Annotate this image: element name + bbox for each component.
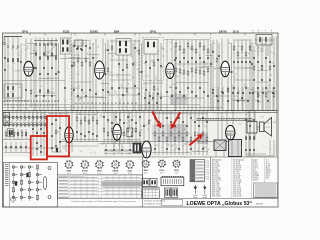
voltage measurement table xyxy=(58,175,143,198)
mixer stage components xyxy=(73,40,91,112)
svg-text:8: 8 xyxy=(151,120,152,122)
svg-text:L10 Kor.: L10 Kor. xyxy=(252,178,259,181)
svg-text:12: 12 xyxy=(133,116,135,118)
svg-text:Rad: Rad xyxy=(266,177,269,179)
svg-text:1k: 1k xyxy=(162,141,164,143)
svg-text:5k: 5k xyxy=(152,99,154,101)
svg-text:Schaltbild Nr. 10 452: Schaltbild Nr. 10 452 xyxy=(144,203,161,206)
svg-text:150: 150 xyxy=(269,75,272,77)
svg-text:Tr 70: Tr 70 xyxy=(205,172,209,174)
svg-text:40: 40 xyxy=(254,133,256,135)
svg-text:LOEWE OPTA „Globus 53“: LOEWE OPTA „Globus 53“ xyxy=(187,201,253,207)
output stage components xyxy=(233,40,251,112)
mains entry box xyxy=(256,35,272,57)
svg-text:EF41: EF41 xyxy=(67,170,72,173)
svg-text:3k: 3k xyxy=(131,56,133,58)
paper background xyxy=(0,0,280,210)
svg-text:EF41: EF41 xyxy=(22,30,29,33)
svg-text:70: 70 xyxy=(266,127,268,129)
bottom strip divider 1 xyxy=(142,157,144,207)
svg-text:0,5: 0,5 xyxy=(170,49,172,51)
svg-text:40: 40 xyxy=(101,116,103,118)
svg-text:25: 25 xyxy=(182,146,184,148)
svg-text:6: 6 xyxy=(21,52,22,54)
loudspeaker xyxy=(260,118,272,137)
legend box frame xyxy=(4,163,58,208)
svg-text:ECH81: ECH81 xyxy=(90,30,99,33)
svg-text:0,5: 0,5 xyxy=(175,93,177,95)
AF coupling xyxy=(212,40,218,111)
rectifier socket views xyxy=(141,159,180,174)
svg-text:12: 12 xyxy=(112,56,114,58)
svg-text:2n: 2n xyxy=(144,62,146,64)
svg-text:0,5: 0,5 xyxy=(254,100,256,102)
speaker field wiring xyxy=(246,140,274,156)
tube V4 EL41 output xyxy=(221,39,230,111)
svg-text:0,5: 0,5 xyxy=(110,72,112,74)
title rule xyxy=(143,198,279,200)
svg-text:5n: 5n xyxy=(79,113,81,115)
detector and AF network xyxy=(175,40,209,111)
svg-text:2n: 2n xyxy=(135,65,137,67)
svg-text:2n: 2n xyxy=(201,62,203,64)
svg-text:8: 8 xyxy=(138,71,139,73)
svg-text:EF41: EF41 xyxy=(97,170,102,173)
voltage selector blocks xyxy=(165,188,178,197)
svg-text:0,1: 0,1 xyxy=(96,92,98,94)
svg-text:12: 12 xyxy=(157,51,159,53)
lower interconnect wiring xyxy=(3,113,276,155)
phono jack box xyxy=(4,113,10,126)
svg-text:5k: 5k xyxy=(257,129,259,131)
ferrite antenna frame xyxy=(4,84,22,98)
chassis bus return wire xyxy=(3,112,279,114)
svg-text:10k: 10k xyxy=(175,148,178,150)
AVC divider components xyxy=(76,110,98,142)
tube V2 ECH81 xyxy=(95,39,105,111)
svg-text:0,5: 0,5 xyxy=(117,152,119,154)
svg-text:150: 150 xyxy=(70,94,73,96)
svg-text:0,3: 0,3 xyxy=(187,142,189,144)
auxiliary wiring stacks xyxy=(20,43,253,111)
svg-text:25: 25 xyxy=(264,43,266,45)
dial lamp and scale parts xyxy=(3,129,30,140)
svg-text:70: 70 xyxy=(109,93,111,95)
svg-text:70: 70 xyxy=(246,114,248,116)
transformer data column xyxy=(205,160,209,180)
left lower tie xyxy=(3,147,59,149)
svg-text:3k: 3k xyxy=(199,55,201,57)
svg-text:Tr 70: Tr 70 xyxy=(205,170,209,172)
svg-text:0,3: 0,3 xyxy=(49,91,51,93)
speaker connector strip xyxy=(161,176,184,186)
svg-text:150: 150 xyxy=(274,91,277,93)
svg-text:5n: 5n xyxy=(98,144,100,146)
tube socket bottom views xyxy=(64,160,134,175)
svg-text:0,2: 0,2 xyxy=(211,50,213,52)
component value speckle xyxy=(5,42,276,155)
svg-text:0,5: 0,5 xyxy=(135,47,137,49)
svg-text:0,5: 0,5 xyxy=(172,150,174,152)
highlight box left of magic eye xyxy=(152,125,166,141)
filter choke xyxy=(229,140,242,157)
svg-text:50: 50 xyxy=(232,86,234,88)
svg-text:0,5: 0,5 xyxy=(23,120,25,122)
border tick marks xyxy=(30,33,245,35)
svg-text:EL41: EL41 xyxy=(128,170,133,173)
svg-text:Geändert: 12.3.53 Blatt 2: Geändert: 12.3.53 Blatt 2 xyxy=(144,200,165,203)
tone control network xyxy=(253,37,275,111)
band coil bank xyxy=(34,38,58,112)
svg-text:25: 25 xyxy=(78,100,80,102)
svg-text:0,3: 0,3 xyxy=(132,77,134,79)
svg-text:70: 70 xyxy=(18,55,20,57)
switch wafer contact row mid xyxy=(76,102,136,104)
svg-text:EC92: EC92 xyxy=(63,30,70,33)
svg-text:10k: 10k xyxy=(155,78,158,80)
svg-text:3k: 3k xyxy=(23,114,25,116)
oscillator padder caps xyxy=(51,112,62,152)
svg-text:1k: 1k xyxy=(78,86,80,88)
svg-text:12: 12 xyxy=(107,122,109,124)
svg-text:EC92: EC92 xyxy=(160,170,165,172)
bottom strip divider 2 xyxy=(210,157,212,199)
svg-text:0,3: 0,3 xyxy=(13,63,15,65)
svg-text:10k: 10k xyxy=(228,43,231,45)
svg-text:EF41: EF41 xyxy=(150,30,157,33)
switch wiring xyxy=(32,112,45,156)
svg-text:EL41: EL41 xyxy=(233,30,240,33)
red arrow annotation 3 xyxy=(189,134,203,145)
svg-text:5k: 5k xyxy=(197,151,199,153)
heater pair wires xyxy=(104,151,140,154)
svg-text:EAF42: EAF42 xyxy=(219,30,227,33)
left long tie wire xyxy=(3,80,35,82)
title LOEWE OPTA Globus 53 xyxy=(187,201,263,207)
svg-text:8: 8 xyxy=(12,70,13,72)
svg-text:40: 40 xyxy=(81,43,83,45)
svg-text:40: 40 xyxy=(248,54,250,56)
svg-text:0,3: 0,3 xyxy=(119,100,121,102)
tube V7 AZ41 rectifier xyxy=(226,111,235,140)
svg-text:2n: 2n xyxy=(118,53,120,55)
svg-text:0,1: 0,1 xyxy=(46,52,48,54)
svg-text:5k: 5k xyxy=(128,130,130,132)
svg-text:0,5: 0,5 xyxy=(184,144,186,146)
svg-text:3k: 3k xyxy=(252,120,254,122)
svg-text:Tr 70: Tr 70 xyxy=(205,174,209,176)
svg-text:25: 25 xyxy=(83,93,85,95)
svg-text:Tr 70: Tr 70 xyxy=(205,176,209,178)
svg-text:70: 70 xyxy=(273,54,275,56)
svg-text:12: 12 xyxy=(86,121,88,123)
tube type labels on top border xyxy=(22,30,240,33)
svg-text:3k: 3k xyxy=(101,144,103,146)
svg-text:70: 70 xyxy=(19,87,21,89)
svg-text:0,3: 0,3 xyxy=(40,86,42,88)
svg-text:25: 25 xyxy=(11,48,13,50)
svg-text:150: 150 xyxy=(234,96,237,98)
lower mid tie xyxy=(62,145,98,147)
red arrow annotation 1 xyxy=(152,111,161,128)
svg-text:0,3: 0,3 xyxy=(115,93,117,95)
svg-text:R18 0,4 MΩ: R18 0,4 MΩ xyxy=(212,194,222,197)
svg-text:50: 50 xyxy=(52,92,54,94)
svg-text:150: 150 xyxy=(20,131,23,133)
resistor box R lower xyxy=(127,113,133,144)
svg-text:Tr 70: Tr 70 xyxy=(205,167,209,169)
svg-text:8: 8 xyxy=(202,122,203,124)
svg-text:10k: 10k xyxy=(203,147,206,149)
parts list xyxy=(212,158,271,199)
svg-text:2n: 2n xyxy=(105,50,107,52)
svg-text:50: 50 xyxy=(153,59,155,61)
antenna input network xyxy=(3,37,22,112)
svg-text:0,3: 0,3 xyxy=(80,151,82,153)
svg-text:12: 12 xyxy=(97,47,99,49)
interconnect wiring mesh xyxy=(5,40,274,101)
svg-text:8: 8 xyxy=(192,76,193,78)
svg-text:2n: 2n xyxy=(37,130,39,132)
schematic paper tint xyxy=(3,33,279,157)
operating voltages box xyxy=(190,160,205,182)
svg-text:0,2: 0,2 xyxy=(7,122,9,124)
svg-text:0,1: 0,1 xyxy=(122,133,124,135)
coupling components xyxy=(134,40,140,111)
tube V6 EM4 magic eye xyxy=(142,111,151,158)
svg-text:150: 150 xyxy=(242,101,245,103)
AF output and feedback parts xyxy=(154,111,208,156)
svg-text:5n: 5n xyxy=(140,126,142,128)
svg-text:6: 6 xyxy=(118,50,119,52)
svg-text:0,1: 0,1 xyxy=(91,97,93,99)
red arrow annotation 2 xyxy=(171,112,181,129)
svg-text:150: 150 xyxy=(136,50,139,52)
stage separator dashed lines xyxy=(71,34,211,111)
svg-text:12: 12 xyxy=(118,65,120,67)
svg-text:25: 25 xyxy=(77,74,79,76)
tube V3 EAF42 demod xyxy=(166,39,174,111)
lower horizontal wire xyxy=(100,143,142,145)
decoupling capacitor cluster mid xyxy=(144,92,162,111)
svg-text:0,5: 0,5 xyxy=(162,56,164,58)
svg-text:12: 12 xyxy=(127,93,129,95)
svg-text:150: 150 xyxy=(78,98,81,100)
svg-text:0,1: 0,1 xyxy=(145,125,147,127)
svg-text:0,3: 0,3 xyxy=(213,69,215,71)
svg-text:0,3: 0,3 xyxy=(184,99,186,101)
auxiliary tie wires xyxy=(15,43,270,100)
svg-text:70: 70 xyxy=(252,73,254,75)
shielded cable run xyxy=(196,118,252,121)
svg-text:50: 50 xyxy=(111,47,113,49)
svg-text:6: 6 xyxy=(169,145,170,147)
svg-text:10k: 10k xyxy=(175,127,178,129)
svg-text:1k: 1k xyxy=(147,76,149,78)
svg-text:EAF42: EAF42 xyxy=(113,170,119,173)
waveband switch legend symbols xyxy=(10,165,51,203)
tube V1 EF41 xyxy=(24,39,33,111)
switch wafer contact row left xyxy=(4,100,58,106)
waveband switch contacts xyxy=(4,111,47,128)
svg-text:0,5: 0,5 xyxy=(118,67,120,69)
tone network dashed box xyxy=(250,43,263,51)
svg-text:50: 50 xyxy=(35,51,37,53)
svg-text:12: 12 xyxy=(90,153,92,155)
chassis bus wire xyxy=(3,110,279,112)
left edge component stack xyxy=(4,37,6,105)
svg-text:Tr 70: Tr 70 xyxy=(205,165,209,167)
table caption xyxy=(72,200,136,203)
svg-text:70: 70 xyxy=(147,129,149,131)
svg-text:3k: 3k xyxy=(208,149,210,151)
svg-text:12: 12 xyxy=(154,87,156,89)
svg-text:40: 40 xyxy=(268,127,270,129)
svg-text:2n: 2n xyxy=(206,121,208,123)
svg-text:50: 50 xyxy=(18,120,20,122)
svg-text:2n: 2n xyxy=(241,51,243,53)
red rectangle annotation small xyxy=(31,136,47,159)
svg-text:150: 150 xyxy=(169,87,172,89)
svg-text:10k: 10k xyxy=(173,84,176,86)
svg-text:Die Spannungen wurden mit Röhr: Die Spannungen wurden mit Röhrenvoltmete… xyxy=(72,200,136,203)
switch position index strip xyxy=(5,163,10,208)
svg-text:70: 70 xyxy=(121,87,123,89)
svg-text:0,3: 0,3 xyxy=(15,83,17,85)
right border wire xyxy=(276,36,278,156)
IF transformer T1 xyxy=(116,39,131,111)
svg-text:10k: 10k xyxy=(143,84,146,86)
svg-text:C18 0,1 µF: C18 0,1 µF xyxy=(233,195,241,197)
svg-text:0,3: 0,3 xyxy=(189,115,191,117)
oscillator coil can xyxy=(61,38,71,111)
svg-text:1953 W: 1953 W xyxy=(256,203,263,205)
svg-text:1k: 1k xyxy=(238,46,240,48)
svg-text:5n: 5n xyxy=(271,52,273,54)
order number block xyxy=(254,183,278,198)
svg-text:8: 8 xyxy=(182,53,183,55)
svg-text:5k: 5k xyxy=(89,121,91,123)
svg-text:10k: 10k xyxy=(86,54,89,56)
svg-text:5n: 5n xyxy=(64,101,66,103)
tube V5 EC92 oscillator xyxy=(65,111,73,153)
schematic border frame xyxy=(3,33,279,207)
svg-text:2n: 2n xyxy=(169,98,171,100)
svg-text:0,3: 0,3 xyxy=(169,42,171,44)
fuse holder diagrams xyxy=(142,179,157,187)
svg-text:EM4: EM4 xyxy=(114,30,120,33)
output transformer xyxy=(247,111,260,157)
svg-text:0,3: 0,3 xyxy=(205,63,207,65)
bottom-strip top border xyxy=(60,156,279,158)
svg-text:5n: 5n xyxy=(235,74,237,76)
electrolytic capacitor symbols xyxy=(193,185,207,198)
fuse table xyxy=(142,187,160,198)
svg-text:5k: 5k xyxy=(70,50,72,52)
svg-text:50: 50 xyxy=(148,92,150,94)
revision block xyxy=(144,199,183,206)
svg-text:8: 8 xyxy=(44,100,45,102)
tuning capacitor frame xyxy=(46,41,57,56)
tube V8 EABC80 AF stage xyxy=(113,113,121,150)
svg-text:Tr 70: Tr 70 xyxy=(205,163,209,165)
filter choke small xyxy=(133,143,141,153)
heater wiring components xyxy=(103,111,141,156)
svg-text:ECH81: ECH81 xyxy=(82,171,88,173)
svg-text:0,2: 0,2 xyxy=(238,92,240,94)
IF input components xyxy=(107,40,113,111)
svg-text:50: 50 xyxy=(122,147,124,149)
mixer grid box xyxy=(75,40,89,50)
svg-text:0,5: 0,5 xyxy=(218,68,220,70)
IF transformer T2 xyxy=(143,38,164,111)
svg-text:70: 70 xyxy=(241,53,243,55)
svg-text:40: 40 xyxy=(183,65,185,67)
highlight box near feedback resistor xyxy=(197,133,208,145)
svg-text:0,3: 0,3 xyxy=(15,133,17,135)
svg-text:8: 8 xyxy=(251,90,252,92)
svg-text:70: 70 xyxy=(166,152,168,154)
svg-text:12: 12 xyxy=(94,152,96,154)
svg-text:0,3: 0,3 xyxy=(142,88,144,90)
AVC bus wire xyxy=(3,104,201,106)
svg-text:0,3: 0,3 xyxy=(63,148,65,150)
svg-text:0,1: 0,1 xyxy=(116,74,118,76)
highlight box over ratio-detector area xyxy=(170,94,187,105)
svg-text:0,2: 0,2 xyxy=(134,62,136,64)
power transformer xyxy=(214,112,226,157)
svg-text:0,3: 0,3 xyxy=(34,126,36,128)
svg-text:25: 25 xyxy=(23,44,25,46)
svg-text:8: 8 xyxy=(234,77,235,79)
svg-text:10k: 10k xyxy=(212,43,215,45)
svg-text:5k: 5k xyxy=(151,61,153,63)
svg-text:5n: 5n xyxy=(117,77,119,79)
svg-text:70: 70 xyxy=(128,121,130,123)
svg-text:50: 50 xyxy=(5,43,7,45)
svg-text:70: 70 xyxy=(132,66,134,68)
svg-text:Tr 70: Tr 70 xyxy=(205,179,209,181)
svg-text:5k: 5k xyxy=(192,120,194,122)
heater bus wire xyxy=(60,141,232,143)
svg-text:0,1: 0,1 xyxy=(120,84,122,86)
scan noise speckle xyxy=(3,33,277,206)
terminal labels above border xyxy=(252,30,273,33)
svg-text:2n: 2n xyxy=(161,147,163,149)
svg-text:0,5: 0,5 xyxy=(271,63,273,65)
svg-text:40: 40 xyxy=(120,128,122,130)
svg-text:2n: 2n xyxy=(217,100,219,102)
svg-text:25: 25 xyxy=(10,91,12,93)
pilot lamp wiring row xyxy=(4,142,30,153)
highlight box near headphone jack xyxy=(168,124,187,141)
decoupling capacitor row right xyxy=(212,87,274,111)
svg-text:Tr 70: Tr 70 xyxy=(205,160,209,162)
smoothing capacitors xyxy=(245,111,255,157)
svg-text:1k: 1k xyxy=(71,92,73,94)
svg-text:10k: 10k xyxy=(244,86,247,88)
svg-text:5k: 5k xyxy=(175,50,177,52)
svg-text:70: 70 xyxy=(184,129,186,131)
switch bus wire xyxy=(3,107,223,109)
svg-text:12: 12 xyxy=(174,144,176,146)
svg-text:0,1: 0,1 xyxy=(267,122,269,124)
red rectangle annotation large xyxy=(47,116,69,156)
svg-text:0,2: 0,2 xyxy=(239,123,241,125)
